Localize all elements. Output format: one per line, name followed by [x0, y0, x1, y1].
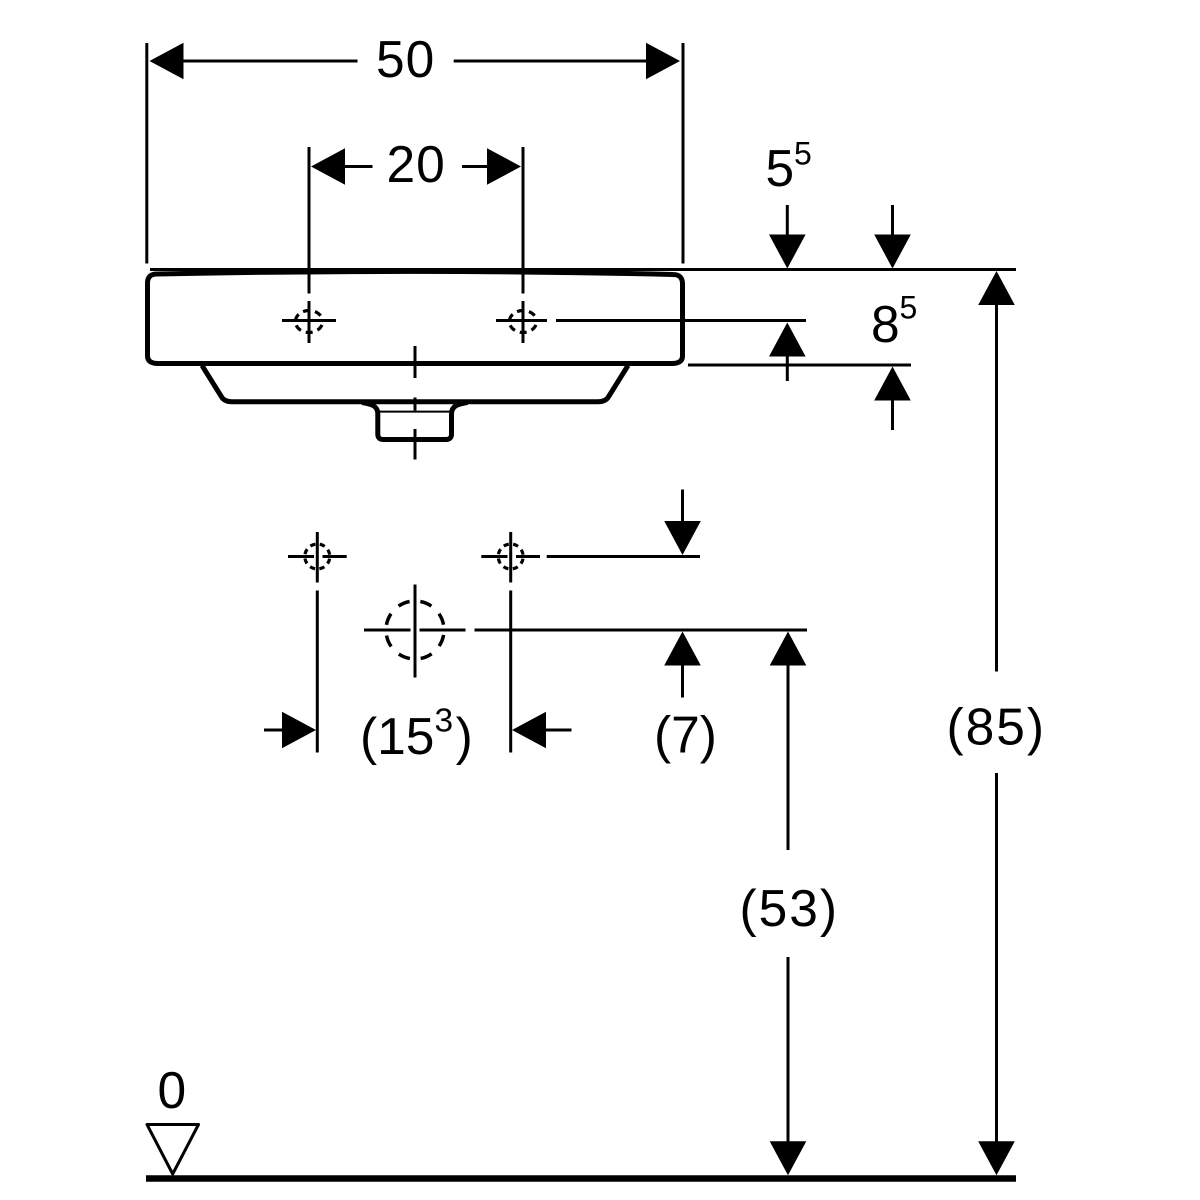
dimension 53 vertical line upper segment [787, 666, 790, 851]
svg-text:50: 50 [376, 30, 435, 88]
plan view drain hole horizontal crosshair left [364, 629, 411, 632]
right faucet hole dashed circle [509, 311, 536, 333]
dimension 53 bottom arrowhead [770, 1141, 807, 1175]
svg-text:(153): (153) [360, 703, 473, 766]
dimension 8-5 down arrow at 892 [874, 205, 911, 269]
plan view left bolt hole horizontal crosshair [288, 555, 314, 558]
svg-text:5: 5 [900, 290, 918, 326]
dimension 53 top arrowhead [770, 632, 807, 666]
reference line C basin bottom level [688, 364, 911, 367]
washbasin body outline [148, 271, 683, 363]
plan view right extension line down [509, 591, 512, 753]
dimension 7 down arrow [664, 490, 701, 556]
plan view right bolt hole horizontal crosshair [481, 555, 507, 558]
dimension 85 bottom arrowhead [978, 1141, 1015, 1175]
dimension 85 vertical line upper segment [995, 305, 998, 672]
drain inner line [377, 411, 452, 413]
dimension 85 vertical line lower segment [995, 773, 998, 1142]
leader line bolt hole level [547, 555, 700, 558]
left faucet hole horizontal crosshair [282, 319, 336, 322]
plan view left bolt hole vertical crosshair [316, 532, 319, 583]
dimension 50 left arrowhead [150, 43, 184, 80]
dimension 50 line left segment [182, 60, 358, 63]
dimension 20 right arrowhead [487, 148, 521, 185]
datum triangle symbol [147, 1125, 199, 1175]
drain centerline segment 3 [414, 429, 417, 460]
dimension 20 line right segment [462, 165, 488, 168]
dimension 20 left arrowhead [311, 148, 345, 185]
svg-text:8: 8 [871, 295, 900, 353]
reference line A basin top level [150, 268, 1016, 271]
svg-text:5: 5 [766, 139, 795, 197]
washbasin bowl outline [202, 366, 628, 402]
svg-text:20: 20 [387, 135, 446, 193]
dimension 8-5 up arrow at 892 [874, 367, 911, 431]
svg-text:(53): (53) [740, 879, 840, 937]
dimension 15-3 left arrow [264, 712, 316, 749]
dimension 50 line right segment [454, 60, 648, 63]
dimension 50 left extension line [145, 43, 148, 264]
right faucet hole vertical crosshair [522, 301, 525, 343]
leader line B faucet hole level [556, 319, 806, 322]
svg-text:5: 5 [794, 136, 812, 172]
drain box outline [362, 403, 468, 440]
dimension 7 up arrow [664, 632, 701, 698]
dimension 53 vertical line lower segment [787, 957, 790, 1142]
plan view left extension line down [316, 591, 319, 753]
svg-text:(85): (85) [947, 698, 1047, 756]
dimension 5-5 down arrow at 787 [769, 205, 806, 269]
dimension 15-3 right arrow [512, 712, 572, 749]
dimension 50 right extension line [682, 43, 685, 264]
plan view drain hole horizontal crosshair right [420, 629, 466, 632]
left faucet hole vertical crosshair [308, 301, 311, 343]
plan view right bolt hole vertical crosshair [509, 532, 512, 583]
dimension 20 left extension line [308, 147, 311, 294]
dimension 85 top arrowhead [978, 271, 1015, 305]
dimension 20 right extension line [522, 147, 525, 294]
plan view drain hole vertical crosshair [414, 585, 417, 678]
leader line drain level [475, 629, 808, 632]
drain centerline segment 2 [414, 398, 417, 411]
drain centerline segment 1 [414, 346, 417, 378]
right faucet hole horizontal crosshair [496, 319, 547, 322]
svg-text:(7): (7) [654, 706, 717, 764]
dimension 50 right arrowhead [646, 43, 680, 80]
plan view left bolt hole dashed circle [305, 544, 330, 569]
dimension 20 line left segment [344, 165, 373, 168]
svg-text:0: 0 [158, 1061, 187, 1119]
left faucet hole dashed circle [295, 311, 322, 333]
dimension 5-5 up arrow at 787 [769, 323, 806, 382]
ground line [146, 1175, 1016, 1182]
plan view right bolt hole dashed circle [498, 544, 523, 569]
plan view drain hole dashed circle [386, 601, 444, 659]
